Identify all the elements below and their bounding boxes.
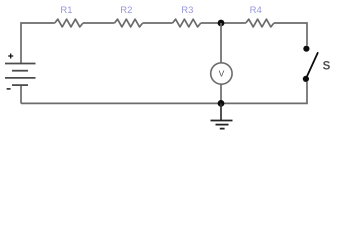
wire: ground stub bbox=[220, 103, 222, 120]
battery: plate 3 (long) bbox=[5, 77, 36, 79]
node junction on bottom rail bbox=[218, 100, 225, 107]
ground bar 2 bbox=[216, 124, 229, 126]
wire: voltmeter to bottom rail bbox=[220, 84, 222, 103]
svg-text:R3: R3 bbox=[181, 5, 193, 16]
resistor R3 bbox=[173, 19, 201, 27]
wire: R4 to top-right corner, down to switch bbox=[274, 23, 307, 46]
voltmeter V1 body bbox=[211, 63, 232, 84]
wire: top-left from battery top plate up and right to R1 bbox=[21, 23, 55, 64]
wire: R1 to R2 bbox=[83, 22, 115, 24]
battery: plate 2 (short) bbox=[12, 70, 28, 72]
battery: plate 1 (long, +) bbox=[5, 63, 36, 65]
svg-text:R1: R1 bbox=[60, 5, 72, 16]
battery: plate 4 (short, -) bbox=[12, 84, 28, 86]
switch S: top contact dot bbox=[303, 46, 309, 52]
wire: R3 to node and on to R4 bbox=[201, 22, 246, 24]
ground bar 3 bbox=[220, 128, 225, 130]
switch S: bottom contact dot bbox=[303, 76, 309, 82]
battery - terminal mark bbox=[7, 88, 11, 90]
wire: battery bottom plate to bottom rail bbox=[20, 85, 22, 103]
wire: node down to voltmeter bbox=[220, 23, 222, 63]
wire: switch bottom to bottom-right corner and bottom rail bbox=[21, 82, 307, 103]
battery + terminal mark bbox=[8, 54, 13, 59]
ground bar 1 bbox=[211, 120, 233, 122]
resistor R1 bbox=[55, 19, 83, 27]
svg-text:S: S bbox=[323, 60, 331, 72]
svg-text:R2: R2 bbox=[120, 5, 132, 16]
resistor R2 bbox=[115, 19, 143, 27]
switch S: blade (open) bbox=[306, 52, 318, 78]
node junction on top rail bbox=[218, 20, 225, 27]
wire: R2 to R3 bbox=[143, 22, 173, 24]
svg-text:R4: R4 bbox=[250, 5, 262, 16]
resistor R4 bbox=[246, 19, 274, 27]
svg-text:V: V bbox=[219, 69, 225, 79]
